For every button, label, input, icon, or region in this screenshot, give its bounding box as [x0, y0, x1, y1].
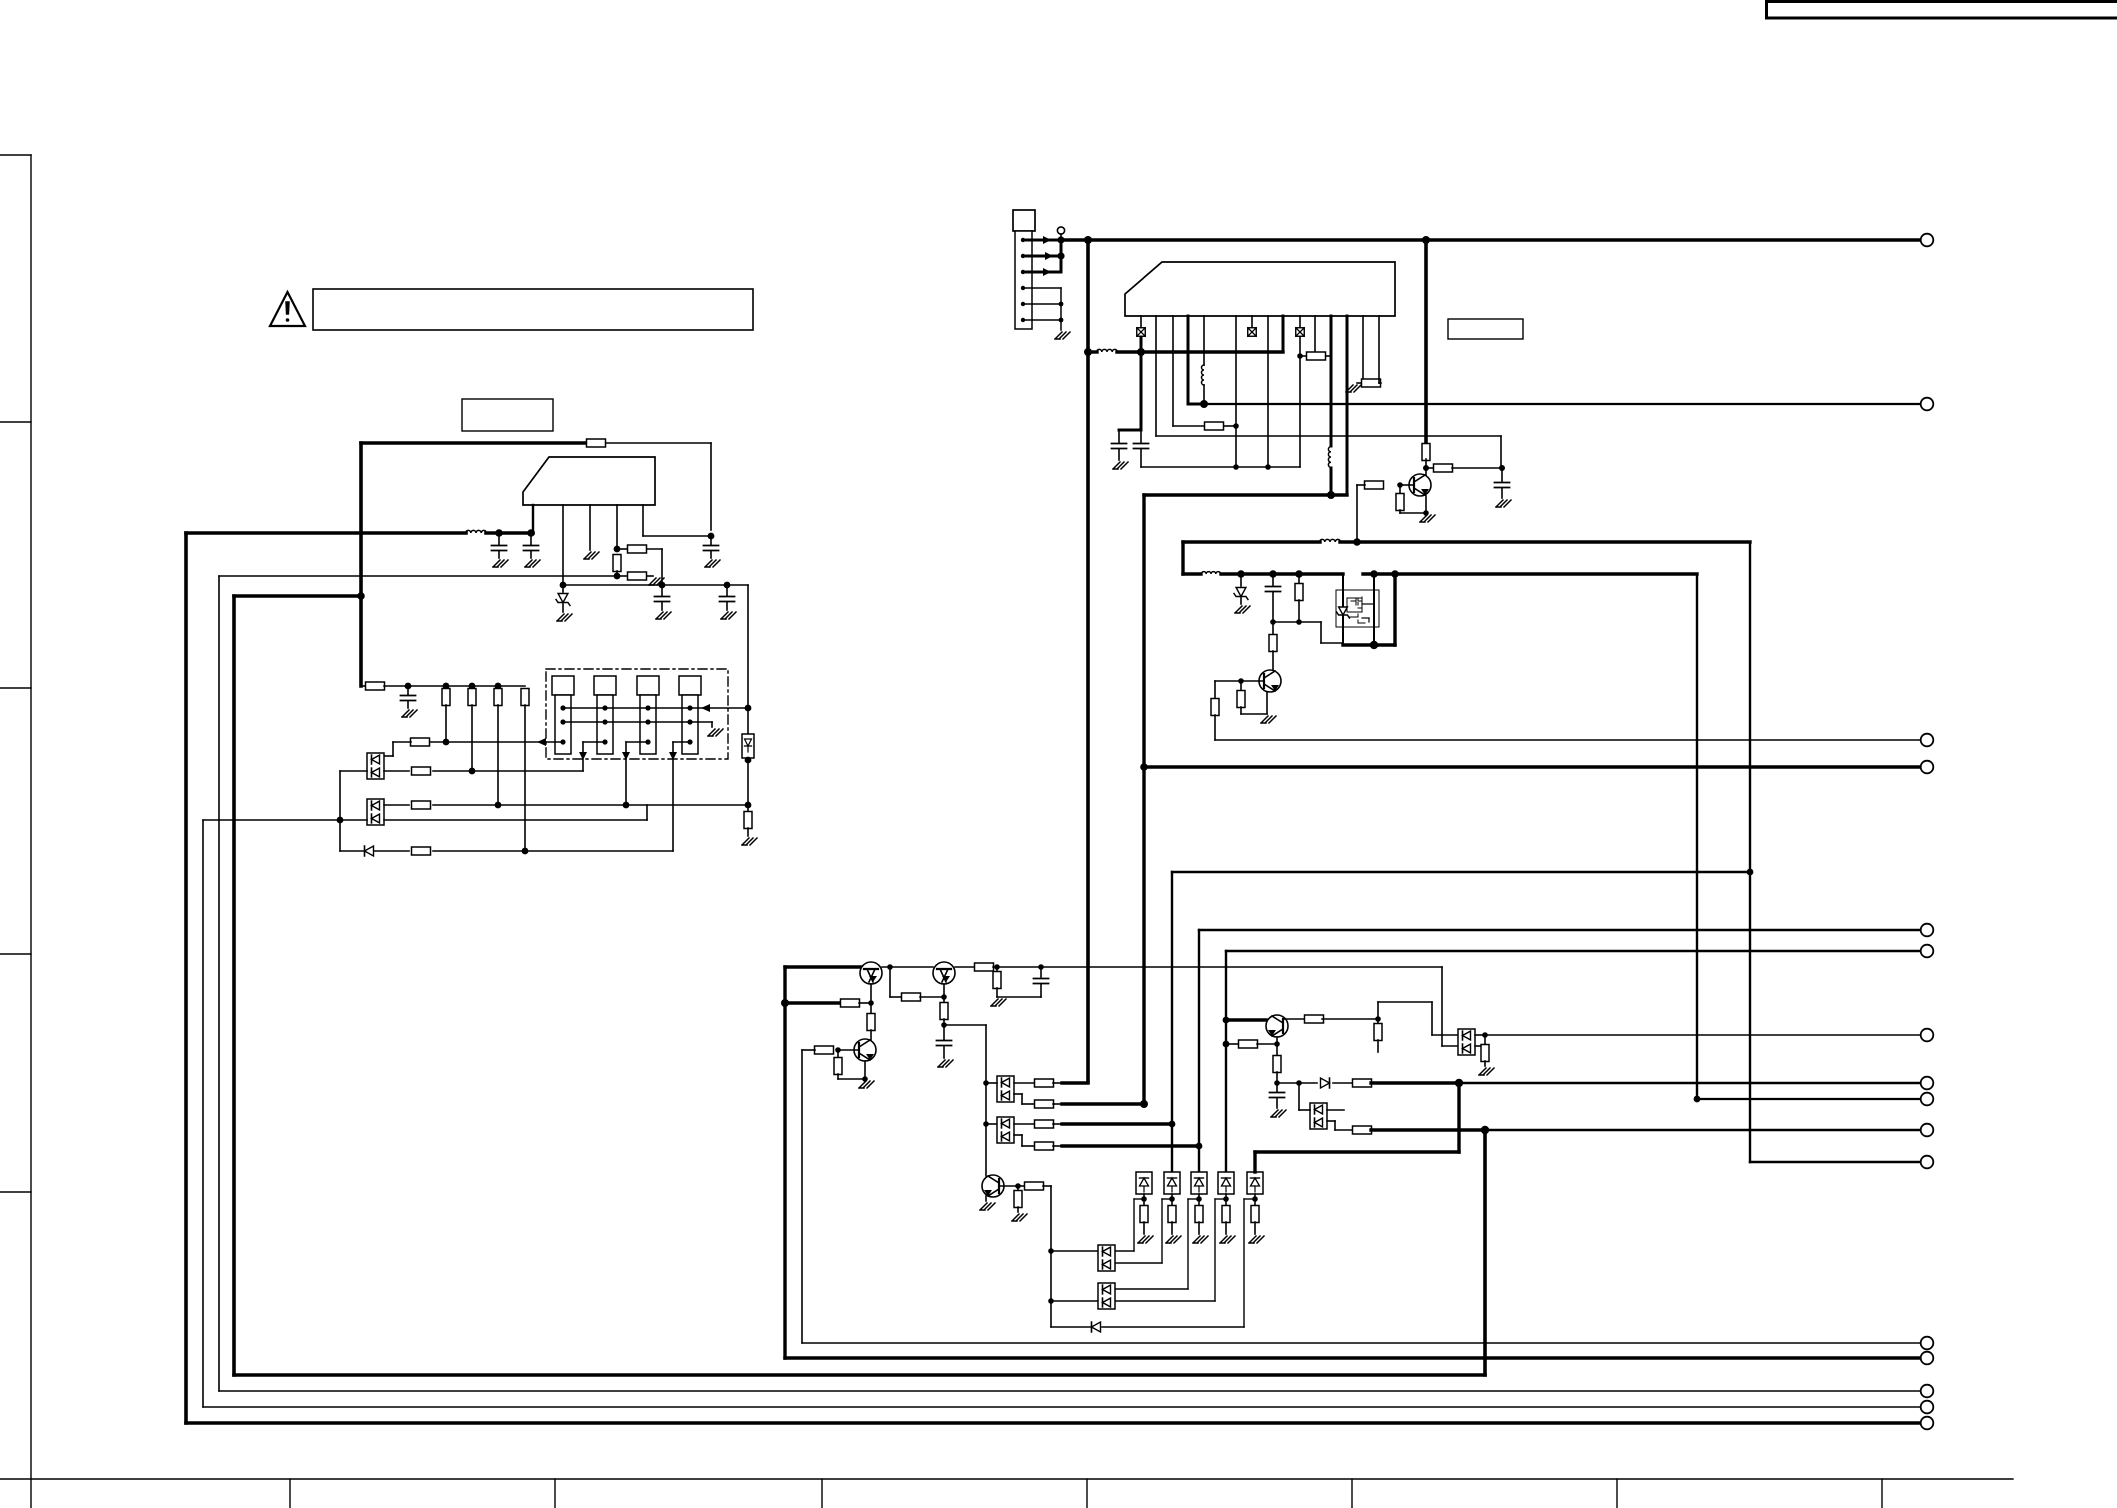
ferrite bead FB3 — [1296, 328, 1305, 337]
wire — [1051, 1300, 1098, 1302]
wire — [1327, 1109, 1344, 1111]
pin wire 1 — [1140, 316, 1142, 327]
terminal — [1921, 234, 1934, 247]
wire caps branch — [1140, 352, 1143, 430]
riser thick — [1142, 495, 1145, 1105]
inductor L1 — [466, 530, 487, 533]
ground — [708, 729, 723, 736]
capacitor C1 — [498, 536, 500, 545]
ferrite bead FB2 — [1248, 328, 1257, 337]
optocoupler PC7 — [1458, 1029, 1475, 1055]
node — [1169, 1121, 1176, 1128]
module leg right — [1393, 574, 1396, 645]
optocoupler PC4 — [997, 1117, 1014, 1143]
wire — [955, 966, 975, 968]
test point circle — [1057, 227, 1064, 234]
node — [522, 848, 529, 855]
resistor R18 — [1422, 444, 1430, 461]
wire — [1377, 1002, 1379, 1019]
ground — [1261, 716, 1276, 723]
wire tap3 — [626, 741, 648, 743]
ruler tick 2 — [0, 421, 31, 423]
node — [724, 582, 731, 589]
terminal — [1921, 398, 1934, 411]
resistor R4 — [617, 575, 627, 577]
long signal wire — [1215, 739, 1921, 741]
wire — [1750, 1161, 1921, 1163]
node — [745, 757, 752, 764]
node — [1233, 423, 1239, 429]
thick vertical bus left — [359, 443, 363, 686]
wire thick — [785, 1001, 841, 1004]
node — [1327, 491, 1335, 499]
node — [1297, 353, 1303, 359]
long signal wire — [1485, 1129, 1921, 1132]
trimmer select row — [429, 741, 563, 743]
bottom tick h — [1881, 1479, 1883, 1508]
pin rail — [1088, 350, 1097, 353]
wire — [1697, 1098, 1921, 1100]
terminal — [1921, 924, 1934, 937]
wire — [1050, 1186, 1052, 1327]
node — [659, 582, 666, 589]
power rail A — [1183, 540, 1320, 543]
node — [708, 533, 715, 540]
supply rail left — [186, 531, 466, 535]
wire — [944, 1024, 986, 1026]
terminal — [1921, 1352, 1934, 1365]
pin wire 3 — [1172, 316, 1174, 426]
node — [1140, 1100, 1148, 1108]
resistor R8 — [468, 689, 476, 706]
rail A riser — [1749, 542, 1751, 1162]
ground — [1271, 1110, 1286, 1117]
label box right — [1448, 319, 1523, 339]
resistor R9 — [494, 689, 502, 706]
long signal wire — [1485, 1034, 1921, 1036]
wire — [1299, 337, 1301, 467]
wire loop 3 — [218, 576, 220, 1391]
module bottom bar — [1343, 643, 1395, 646]
wire thick — [1371, 1081, 1459, 1084]
ground — [656, 612, 671, 619]
cascade wire 3 — [1188, 1198, 1199, 1200]
cascade wire 2 — [1162, 1198, 1172, 1200]
transistor Q3 — [1259, 670, 1281, 692]
node — [1200, 400, 1208, 408]
resistor R13 — [412, 801, 431, 809]
node — [1694, 1096, 1701, 1103]
ground — [649, 578, 664, 585]
node — [1237, 570, 1245, 578]
wire — [1014, 1093, 1022, 1095]
ground rail — [1141, 466, 1300, 468]
transistor Q8 — [982, 1175, 1004, 1197]
pin wire 2 — [1155, 316, 1157, 436]
wire — [1014, 1123, 1035, 1125]
left ruler line — [30, 155, 32, 1508]
signal corner 2 — [1198, 930, 1200, 1174]
resistor R5 — [747, 805, 749, 812]
node — [495, 529, 503, 537]
pin 3 wire — [1023, 271, 1058, 274]
ground — [402, 710, 417, 717]
node — [1370, 641, 1378, 649]
resistor R42 — [1276, 1044, 1278, 1056]
bottom frame line — [0, 1478, 2013, 1480]
ground — [584, 552, 599, 559]
node — [560, 582, 567, 589]
zener diode D1 — [562, 585, 564, 592]
coupler PS3 — [1164, 1172, 1180, 1194]
resistor R36 — [1035, 1142, 1054, 1150]
link — [1181, 542, 1184, 574]
terminal — [1921, 1124, 1934, 1137]
ground — [980, 1203, 995, 1210]
transistor Q6 — [854, 1039, 876, 1061]
wire top feed — [361, 441, 586, 445]
mosfet module PS1 — [1336, 590, 1379, 627]
capacitor C7 — [1118, 430, 1120, 443]
ground — [525, 560, 540, 567]
bottom tick d — [821, 1479, 823, 1508]
coupler PS6 — [1247, 1172, 1263, 1194]
resistor R44 — [1353, 1079, 1372, 1087]
diode D5 — [1092, 1322, 1101, 1332]
pin wire 6 — [1235, 316, 1237, 467]
node — [868, 1000, 874, 1006]
wire — [340, 770, 367, 772]
stub wire — [234, 594, 361, 598]
IC U1 flat-pack outline — [523, 457, 655, 505]
title block box top right — [1767, 2, 2117, 19]
resistor R24 — [1240, 681, 1242, 690]
node — [405, 683, 412, 690]
optocoupler PC8 — [1310, 1103, 1327, 1129]
node — [745, 802, 752, 809]
node — [614, 546, 621, 553]
base wire — [838, 1049, 859, 1051]
row mid — [384, 804, 409, 806]
diode D6 — [1321, 1078, 1330, 1088]
wire pin5 — [642, 505, 644, 536]
ground — [1166, 1236, 1181, 1243]
terminal — [1921, 945, 1934, 958]
wire — [1273, 621, 1321, 623]
node — [1015, 1183, 1021, 1189]
internal wire — [1362, 603, 1374, 605]
zener diode D7 — [1339, 607, 1348, 615]
ground — [991, 999, 1006, 1006]
resistor R27 — [975, 963, 994, 971]
capacitor C2 — [530, 536, 532, 545]
long signal wire — [1459, 1082, 1921, 1085]
wire — [1356, 485, 1358, 542]
signal corner 3 — [1225, 951, 1227, 1174]
ground — [1220, 1236, 1235, 1243]
long wire — [1156, 435, 1501, 437]
trimmer T4 — [679, 676, 701, 695]
ground — [1496, 500, 1511, 507]
warning note box — [313, 289, 753, 330]
terminal — [1921, 1401, 1934, 1414]
pin 1 wire — [1023, 239, 1058, 242]
ground — [859, 1081, 874, 1088]
ruler tick 3 — [0, 687, 31, 689]
power rail B — [1183, 572, 1201, 575]
thick feed L — [785, 965, 862, 968]
node — [1140, 763, 1148, 771]
resistor R10 — [521, 689, 529, 706]
node — [614, 573, 621, 580]
resistor R14 — [412, 847, 431, 855]
resistor R26 — [943, 997, 945, 1003]
wire loop inner — [232, 596, 236, 1375]
resistor R20 — [1399, 485, 1401, 494]
resistor R6 — [361, 685, 366, 687]
capacitor C4 — [661, 585, 663, 596]
resistor R22 — [1272, 622, 1274, 634]
base wire — [1000, 1185, 1018, 1187]
cascade wire 1 — [1134, 1198, 1144, 1200]
resistor R23 — [1211, 699, 1219, 716]
warning triangle — [270, 292, 305, 326]
capacitor C5 — [726, 585, 728, 596]
ground — [1113, 462, 1128, 469]
wire — [606, 442, 711, 444]
ground — [1479, 1068, 1494, 1075]
node — [1196, 1143, 1203, 1150]
bus drop right — [1424, 240, 1428, 444]
bottom tick e — [1086, 1479, 1088, 1508]
resistor R41 — [1226, 1043, 1239, 1045]
node — [1375, 1016, 1381, 1022]
resistor R21 — [1298, 574, 1300, 583]
ground — [1193, 1236, 1208, 1243]
wire — [986, 1082, 997, 1084]
row low — [203, 819, 367, 821]
node — [1270, 619, 1276, 625]
wire pin2 — [562, 505, 564, 585]
diode D3 — [365, 846, 374, 856]
transistor Q7 — [1266, 1015, 1288, 1037]
node — [443, 739, 450, 746]
trimmer T3 — [637, 676, 659, 695]
diode row — [1277, 1082, 1317, 1084]
wire tap4 — [673, 741, 690, 743]
ground — [1235, 606, 1250, 613]
resistor R2 — [617, 548, 627, 550]
terminal — [1921, 1156, 1934, 1169]
wire — [882, 966, 933, 968]
pin 6 wire — [1023, 319, 1061, 321]
node — [1423, 510, 1429, 516]
resistor R19 — [1365, 481, 1384, 489]
wire — [1102, 1326, 1244, 1328]
wire — [1441, 967, 1443, 1046]
bottom tick f — [1351, 1479, 1353, 1508]
emitter wire — [1425, 496, 1427, 513]
node — [1048, 1248, 1054, 1254]
wire — [801, 1050, 803, 1343]
capacitor C6 — [407, 686, 409, 695]
power rail mid — [1144, 493, 1347, 496]
emitter wire — [985, 1196, 987, 1201]
long signal wire — [1204, 403, 1921, 405]
node — [1747, 869, 1754, 876]
pin wire 10 — [1299, 316, 1301, 327]
node — [1274, 1080, 1280, 1086]
diode module D2 — [742, 734, 754, 758]
node — [1353, 538, 1361, 546]
resistor R25 — [902, 993, 921, 1001]
transistor Q4 — [860, 962, 882, 984]
label box left — [462, 399, 553, 431]
wire — [384, 819, 647, 821]
ruler tick 1 — [0, 154, 31, 156]
terminal — [1921, 1417, 1934, 1430]
wire — [1014, 1082, 1035, 1084]
connector CN1 — [1013, 210, 1035, 231]
row to trimmer2 — [384, 770, 409, 772]
resistor R31 — [815, 1046, 834, 1054]
terminal — [1921, 1093, 1934, 1106]
wire — [889, 967, 891, 997]
node — [1084, 236, 1092, 244]
resistor R33 — [1035, 1079, 1054, 1087]
wire — [1299, 1109, 1310, 1111]
optocoupler PC3 — [997, 1076, 1014, 1102]
wire — [1333, 1082, 1352, 1084]
wire — [661, 549, 663, 585]
trimmer block dashed box — [546, 669, 728, 759]
ferrite bead FB1 — [1137, 328, 1146, 337]
emitter wire — [1266, 692, 1268, 714]
ground — [1357, 382, 1363, 384]
ground — [705, 560, 720, 567]
wire — [1327, 1120, 1335, 1122]
wire tap2 — [583, 741, 605, 743]
base wire — [1283, 1018, 1306, 1020]
emitter wire — [943, 984, 945, 997]
node — [337, 817, 344, 824]
wire — [1298, 1083, 1300, 1110]
pin wire 15 — [1378, 316, 1380, 383]
node — [1233, 464, 1239, 470]
resistor R7 — [442, 689, 450, 706]
IC U2 flat-pack outline — [1125, 262, 1395, 316]
main supply bus — [1060, 238, 1921, 242]
resistor R45 — [1353, 1126, 1372, 1134]
ground — [938, 1060, 953, 1067]
pin wire 13 — [1346, 316, 1349, 495]
node — [469, 683, 476, 690]
wire — [1425, 468, 1427, 475]
bottom long wire thick — [785, 1356, 1921, 1359]
resistor R3 — [613, 555, 621, 572]
base wire — [1400, 484, 1414, 486]
capacitor C14 — [1501, 468, 1503, 482]
wire pin4 — [616, 505, 618, 549]
pin 5 wire — [1023, 303, 1061, 305]
optocoupler PC1 — [367, 753, 384, 779]
emitter wire — [864, 1061, 866, 1079]
wire — [1140, 337, 1143, 352]
node — [1296, 619, 1302, 625]
wire — [1475, 1034, 1485, 1036]
zener diode D4 — [1240, 574, 1242, 586]
ground — [742, 838, 757, 845]
ground — [557, 614, 572, 621]
node — [1423, 465, 1429, 471]
node — [1274, 1041, 1280, 1047]
resistor R16 — [1300, 355, 1306, 357]
bottom tick c — [554, 1479, 556, 1508]
resistor R38 — [1017, 1186, 1019, 1191]
long drive wire — [1144, 765, 1921, 768]
emitter wire Q4 — [870, 984, 872, 1003]
node — [495, 802, 502, 809]
terminal — [1921, 734, 1934, 747]
vertical link — [339, 771, 341, 851]
wire — [747, 758, 749, 805]
resistor R12 — [412, 767, 431, 775]
node — [887, 964, 893, 970]
wire — [1342, 616, 1344, 645]
terminal — [1921, 1337, 1934, 1350]
node — [1481, 1126, 1489, 1134]
trimmer bus row 1 — [563, 707, 748, 709]
wire thick — [1226, 1018, 1266, 1021]
wire — [727, 584, 748, 586]
resistor R46 — [1426, 467, 1435, 469]
node — [781, 999, 789, 1007]
inductor L2 — [1328, 447, 1331, 468]
coupler PS5 — [1218, 1172, 1234, 1194]
node — [1223, 1017, 1230, 1024]
capacitor C11 — [943, 1025, 945, 1040]
ground — [721, 612, 736, 619]
capacitor C3 — [710, 536, 712, 545]
node — [443, 683, 450, 690]
optocoupler PC6 — [1098, 1283, 1115, 1309]
wire — [374, 850, 409, 852]
node — [1084, 348, 1092, 356]
bottom tick b — [289, 1479, 291, 1508]
trimmer T1 — [552, 676, 574, 695]
base wire — [1241, 680, 1264, 682]
wire pin1 — [532, 505, 534, 533]
ground — [1420, 515, 1435, 522]
node — [941, 1022, 947, 1028]
pin wire 7 — [1251, 316, 1253, 327]
resistor R30 — [870, 1003, 872, 1014]
bus drop left — [1086, 240, 1090, 1082]
wire — [1215, 680, 1241, 682]
link — [1060, 240, 1063, 272]
wire bias column — [747, 585, 749, 734]
resistor R15 — [1205, 422, 1224, 430]
resistor R37 — [1018, 1185, 1025, 1187]
pin 4 wire — [1023, 287, 1061, 289]
wire — [1500, 436, 1502, 468]
resistor R1 — [587, 439, 606, 447]
node — [1455, 1079, 1463, 1087]
node — [835, 1047, 841, 1053]
node — [862, 1076, 868, 1082]
node — [1482, 1032, 1488, 1038]
ground — [1012, 1214, 1027, 1221]
